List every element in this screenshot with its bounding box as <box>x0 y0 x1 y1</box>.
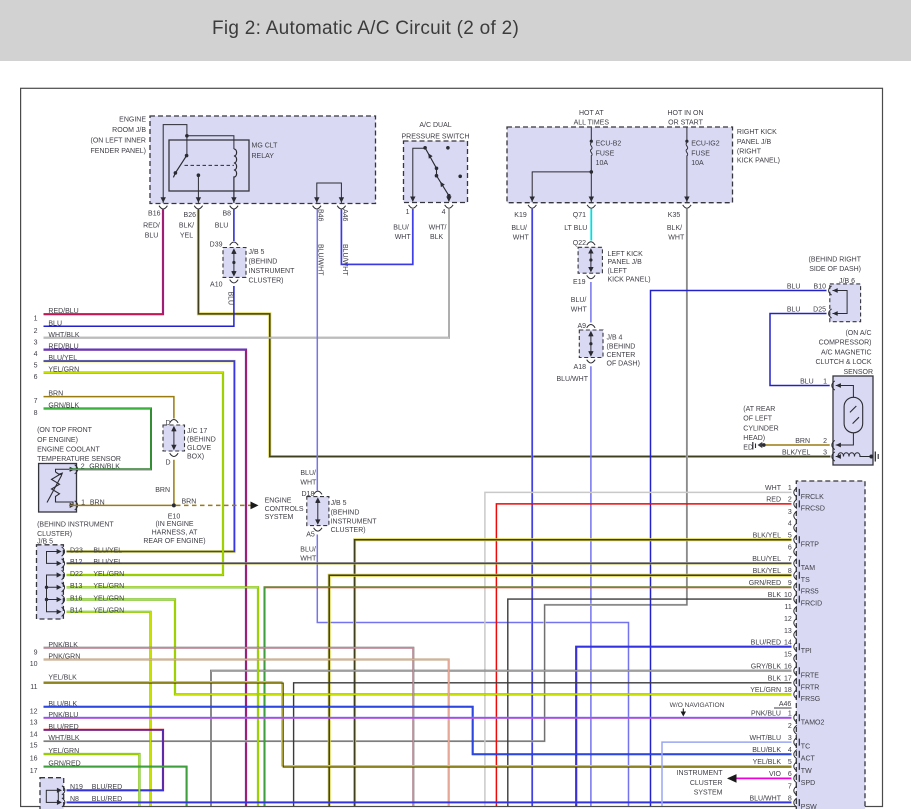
relay dashed linkage <box>185 164 234 166</box>
svg-text:FUSE: FUSE <box>596 151 615 158</box>
svg-text:BLK: BLK <box>430 234 444 241</box>
svg-text:1: 1 <box>406 209 410 216</box>
svg-text:A10: A10 <box>210 282 223 289</box>
svg-text:10: 10 <box>784 592 792 599</box>
svg-text:INSTRUMENT: INSTRUMENT <box>249 268 296 275</box>
wire VIO to amp pin A46-6 SPD <box>729 777 792 779</box>
svg-text:J/B 5: J/B 5 <box>331 500 347 507</box>
svg-text:D23: D23 <box>70 547 83 554</box>
svg-text:10: 10 <box>30 661 38 668</box>
wire YEL/GRN B13 to bottom <box>67 587 259 806</box>
J/B 4 box <box>579 330 603 358</box>
wire 2 BLU from J/B5 A10 <box>44 286 234 326</box>
svg-text:J/C 17: J/C 17 <box>187 428 207 435</box>
svg-text:2: 2 <box>34 328 38 335</box>
svg-text:(ON LEFT INNER: (ON LEFT INNER <box>91 138 147 145</box>
pressure switch internals <box>413 148 425 201</box>
svg-text:PANEL J/B: PANEL J/B <box>608 259 643 266</box>
svg-text:E10: E10 <box>168 514 181 521</box>
wire WHT/BLU to amp pin A46-3 TC <box>662 742 792 806</box>
right kick panel J/B fuse box <box>507 127 733 203</box>
svg-text:(BEHIND INSTRUMENT: (BEHIND INSTRUMENT <box>37 522 114 529</box>
wire YEL/GRN B16 to amp pin 18 FRSG <box>67 600 792 695</box>
svg-text:BRN: BRN <box>155 487 170 494</box>
wire BLK/YEL to amp pin 5 FRTP <box>355 540 792 806</box>
svg-text:TAMO2: TAMO2 <box>801 719 825 726</box>
svg-text:14: 14 <box>30 731 38 738</box>
tick bars for wired pins <box>798 489 800 806</box>
wire GRN/RED to amp pin 9 FRS5 <box>265 587 792 806</box>
svg-text:2: 2 <box>788 723 792 730</box>
svg-text:KICK PANEL): KICK PANEL) <box>737 158 780 165</box>
svg-text:GLOVE: GLOVE <box>187 445 211 452</box>
wire 5 BLU/YEL to J/B5 D23 <box>44 361 235 551</box>
svg-text:10A: 10A <box>691 160 704 167</box>
svg-text:D39: D39 <box>210 242 223 249</box>
svg-text:1: 1 <box>823 379 827 386</box>
svg-text:8: 8 <box>788 568 792 575</box>
svg-text:SENSOR: SENSOR <box>843 369 873 376</box>
ECT sensor pins 2 1 + thermistor <box>70 465 78 474</box>
svg-text:10A: 10A <box>596 160 609 167</box>
fuse ECU-IG2 <box>686 128 688 140</box>
svg-text:12: 12 <box>784 616 792 623</box>
svg-text:(BEHIND: (BEHIND <box>607 343 636 350</box>
svg-text:OF LEFT: OF LEFT <box>743 416 773 423</box>
svg-text:GRY/BLK: GRY/BLK <box>751 664 782 671</box>
svg-text:FRS5: FRS5 <box>801 589 819 596</box>
svg-text:ENGINE COOLANT: ENGINE COOLANT <box>37 446 100 453</box>
svg-text:YEL/GRN: YEL/GRN <box>93 583 124 590</box>
clutch sensor pins 1 2 3 <box>832 381 835 390</box>
svg-text:BLU: BLU <box>800 379 814 386</box>
left kick panel J/B box <box>578 247 602 273</box>
svg-text:YEL/GRN: YEL/GRN <box>93 595 124 602</box>
engine coolant temperature sensor box <box>39 464 77 513</box>
svg-text:B26: B26 <box>184 212 197 219</box>
svg-text:ROOM J/B: ROOM J/B <box>112 127 146 134</box>
svg-text:CLUSTER): CLUSTER) <box>331 527 366 534</box>
relay contact to B26 <box>197 175 199 203</box>
relay terminals B16 B26 B8 B46 A46 <box>159 197 167 209</box>
svg-text:BLU/YEL: BLU/YEL <box>48 355 77 362</box>
svg-text:LT BLU: LT BLU <box>564 225 587 232</box>
svg-text:BRN: BRN <box>795 438 810 445</box>
svg-text:CLUTCH & LOCK: CLUTCH & LOCK <box>815 359 871 366</box>
svg-text:ACT: ACT <box>801 756 816 763</box>
svg-text:BLU/BLK: BLU/BLK <box>752 747 781 754</box>
J/B4 A9/A18 <box>587 325 595 337</box>
J/B 5 (behind instrument cluster) small box under B8 <box>223 248 246 278</box>
svg-text:TAM: TAM <box>801 565 815 572</box>
svg-text:CYLINDER: CYLINDER <box>743 425 778 432</box>
svg-text:E19: E19 <box>573 279 586 286</box>
svg-text:16: 16 <box>30 756 38 763</box>
svg-text:N8: N8 <box>70 796 79 803</box>
svg-text:5: 5 <box>34 363 38 370</box>
wire B26 BLK/YEL to clutch sensor pin 3 <box>198 209 830 457</box>
svg-text:4: 4 <box>442 209 446 216</box>
svg-text:3: 3 <box>788 735 792 742</box>
svg-text:RED/: RED/ <box>143 223 160 230</box>
svg-text:N19: N19 <box>70 784 83 791</box>
svg-text:17: 17 <box>30 768 38 775</box>
wire 13 PNK/BLU to amp pin A46-1 TAMO2 <box>44 717 792 719</box>
svg-text:BLK/YEL: BLK/YEL <box>753 568 782 575</box>
svg-text:2: 2 <box>823 438 827 445</box>
wire BLK to amp pin 10 FRCID <box>508 599 792 806</box>
svg-text:MG CLT: MG CLT <box>252 143 279 150</box>
svg-text:K35: K35 <box>668 212 681 219</box>
bottom J/B pins N19 N8 + jumper <box>57 786 65 795</box>
svg-text:(AT REAR: (AT REAR <box>743 406 775 413</box>
svg-text:YEL/GRN: YEL/GRN <box>750 687 781 694</box>
svg-text:BLK: BLK <box>768 676 782 683</box>
svg-text:BLU: BLU <box>787 307 801 314</box>
svg-text:BLU/RED: BLU/RED <box>48 724 78 731</box>
svg-text:7: 7 <box>788 784 792 791</box>
svg-text:HEAD): HEAD) <box>743 435 765 442</box>
relay coil <box>234 149 237 203</box>
wire A5 BLU/WHT to bottom <box>317 535 628 807</box>
svg-text:FENDER PANEL): FENDER PANEL) <box>91 148 147 155</box>
svg-text:BLU/YEL: BLU/YEL <box>93 559 122 566</box>
svg-text:RIGHT KICK: RIGHT KICK <box>737 129 777 136</box>
svg-text:PSW: PSW <box>801 804 817 809</box>
svg-text:GRN/BLK: GRN/BLK <box>89 463 120 470</box>
J/C 17 box <box>163 425 185 451</box>
svg-text:(ON A/C: (ON A/C <box>845 330 871 337</box>
svg-text:YEL/GRN: YEL/GRN <box>48 367 79 374</box>
svg-text:CLUSTER): CLUSTER) <box>37 531 72 538</box>
svg-text:BLU/WHT: BLU/WHT <box>317 244 324 276</box>
svg-text:D25: D25 <box>813 307 826 314</box>
svg-text:BLU/RED: BLU/RED <box>92 784 122 791</box>
wire BLK/YEL to amp pin 8 TS <box>329 575 791 806</box>
svg-text:B16: B16 <box>148 211 161 218</box>
svg-text:VIO: VIO <box>769 771 782 778</box>
svg-text:3: 3 <box>34 339 38 346</box>
svg-text:15: 15 <box>784 652 792 659</box>
svg-text:BLU/WHT: BLU/WHT <box>557 376 589 383</box>
svg-text:13: 13 <box>30 719 38 726</box>
svg-text:(ON TOP FRONT: (ON TOP FRONT <box>37 427 93 434</box>
svg-text:BOX): BOX) <box>187 454 204 461</box>
J/C17 D/D <box>170 420 178 432</box>
svg-text:REAR OF ENGINE): REAR OF ENGINE) <box>143 538 205 545</box>
wire 8 GRN/BLK to ECT pin 2 <box>44 409 152 470</box>
svg-text:BLU/: BLU/ <box>300 546 316 553</box>
svg-text:B12: B12 <box>70 559 83 566</box>
svg-text:SYSTEM: SYSTEM <box>265 514 294 521</box>
svg-text:6: 6 <box>788 771 792 778</box>
svg-text:D22: D22 <box>70 571 83 578</box>
svg-text:6: 6 <box>34 374 38 381</box>
svg-text:ECU-IG2: ECU-IG2 <box>691 141 720 148</box>
svg-text:1: 1 <box>34 316 38 323</box>
svg-text:WHT: WHT <box>571 307 588 314</box>
svg-text:11: 11 <box>785 604 792 611</box>
left J/B 5 box (D23..B14) <box>37 545 64 619</box>
svg-text:RED: RED <box>766 497 781 504</box>
svg-text:A/C DUAL: A/C DUAL <box>419 122 451 129</box>
svg-text:(BEHIND RIGHT: (BEHIND RIGHT <box>809 257 862 264</box>
svg-text:HARNESS, AT: HARNESS, AT <box>152 529 198 536</box>
wire RED to amp pin 2 FRCSD <box>496 504 791 806</box>
svg-text:TC: TC <box>801 744 810 751</box>
svg-text:WHT: WHT <box>513 235 530 242</box>
svg-text:PRESSURE SWITCH: PRESSURE SWITCH <box>401 133 469 140</box>
left J/B5 pins + jumpers <box>57 547 65 556</box>
svg-text:INSTRUMENT: INSTRUMENT <box>677 770 724 777</box>
svg-text:1: 1 <box>81 499 85 506</box>
svg-text:5: 5 <box>788 759 792 766</box>
svg-text:A5: A5 <box>306 531 315 538</box>
BRN below J/C17 to E10 <box>173 460 175 506</box>
svg-text:YEL/GRN: YEL/GRN <box>93 571 124 578</box>
svg-text:D18: D18 <box>302 491 315 498</box>
svg-text:CLUSTER): CLUSTER) <box>249 278 284 285</box>
svg-text:PNK/BLU: PNK/BLU <box>751 711 781 718</box>
svg-text:11: 11 <box>30 684 37 691</box>
svg-text:BLK/YEL: BLK/YEL <box>753 533 782 540</box>
svg-text:17: 17 <box>784 676 792 683</box>
svg-text:J/B 5: J/B 5 <box>37 539 53 546</box>
svg-text:YEL/BLK: YEL/BLK <box>753 759 782 766</box>
svg-text:BLU/WHT: BLU/WHT <box>750 795 782 802</box>
svg-text:16: 16 <box>784 664 792 671</box>
svg-text:A46: A46 <box>341 209 348 222</box>
svg-text:D: D <box>165 420 170 427</box>
engine room J/B box <box>150 116 376 204</box>
svg-text:HOT IN ON: HOT IN ON <box>667 110 703 117</box>
BRN from ECT pin 1 to E10 <box>69 504 174 506</box>
svg-text:COMPRESSOR): COMPRESSOR) <box>819 340 872 347</box>
svg-text:(BEHIND: (BEHIND <box>187 437 216 444</box>
wire K19 BLU/WHT to bottom <box>531 209 533 806</box>
svg-text:WHT/BLK: WHT/BLK <box>48 735 79 742</box>
svg-text:OF DASH): OF DASH) <box>607 360 640 367</box>
svg-text:WHT: WHT <box>300 556 317 563</box>
svg-text:BLU/: BLU/ <box>300 470 316 477</box>
wire 11 YEL/BLK to amp pin A46-5 TW <box>44 682 792 766</box>
wire D25 BLU to clutch sensor pin 1 <box>770 314 830 386</box>
svg-text:YEL: YEL <box>180 233 193 240</box>
A/C amplifier box (right, cut off at bottom) <box>796 481 865 809</box>
svg-text:BLU/RED: BLU/RED <box>751 640 781 647</box>
svg-text:B10: B10 <box>814 284 827 291</box>
J/B5 D39/A10 <box>230 242 238 254</box>
svg-text:FRCSD: FRCSD <box>801 505 825 512</box>
svg-text:YEL/BLK: YEL/BLK <box>48 675 77 682</box>
wire 14 BLU/RED to N19 <box>44 730 164 791</box>
wire BLU/RED to amp pin 14 TPI <box>576 647 791 806</box>
A/C dual pressure switch box <box>404 141 468 203</box>
case ground bars at sensor <box>874 452 876 462</box>
svg-text:BLU: BLU <box>48 320 62 327</box>
svg-text:BLU/BLK: BLU/BLK <box>48 701 77 708</box>
wire 12 BLU/BLK to amp pin A46-4 ACT <box>44 707 792 754</box>
svg-text:BLU/: BLU/ <box>571 297 587 304</box>
svg-text:BRN: BRN <box>182 498 197 505</box>
wire 16 YEL/GRN to bottom <box>44 754 140 806</box>
svg-text:TS: TS <box>801 577 810 584</box>
amp connector pins A46 1-8 <box>794 713 797 722</box>
wire N8 BLU/RED to amp pin A46-8 <box>67 801 792 803</box>
svg-text:7: 7 <box>788 556 792 563</box>
svg-text:INSTRUMENT: INSTRUMENT <box>331 518 378 525</box>
svg-text:6: 6 <box>788 545 792 552</box>
svg-text:BLU: BLU <box>227 292 234 306</box>
svg-text:Q71: Q71 <box>573 212 586 219</box>
W/O NAVIGATION down arrow <box>682 709 684 713</box>
svg-text:BLU: BLU <box>145 233 159 240</box>
svg-text:B13: B13 <box>70 583 83 590</box>
svg-text:GRN/RED: GRN/RED <box>48 761 80 768</box>
svg-text:ENGINE: ENGINE <box>265 497 292 504</box>
svg-text:4: 4 <box>788 521 792 528</box>
svg-text:WHT: WHT <box>395 234 412 241</box>
svg-text:BLU/WHT: BLU/WHT <box>341 244 348 276</box>
svg-text:FUSE: FUSE <box>691 151 710 158</box>
ED ground symbol <box>752 442 754 450</box>
svg-text:14: 14 <box>784 640 792 647</box>
svg-text:YEL/GRN: YEL/GRN <box>48 748 79 755</box>
svg-text:B14: B14 <box>70 608 83 615</box>
fuse ECU-B2 <box>590 128 592 140</box>
svg-text:OF ENGINE): OF ENGINE) <box>37 437 78 444</box>
svg-text:ECU-B2: ECU-B2 <box>596 141 622 148</box>
svg-text:K19: K19 <box>514 212 527 219</box>
wire GRY/BLK to amp pin 16 FRTE <box>211 671 792 806</box>
svg-text:7: 7 <box>34 398 38 405</box>
svg-text:BLU/: BLU/ <box>511 225 527 232</box>
wire BLU/YEL B12 to amp pin 7 TAM <box>67 562 792 564</box>
svg-text:BLU/: BLU/ <box>393 225 409 232</box>
wire WHT to amp pin 1 FRCLK <box>485 492 792 806</box>
svg-text:BLK/: BLK/ <box>667 225 682 232</box>
svg-text:TPI: TPI <box>801 648 812 655</box>
svg-text:CLUSTER: CLUSTER <box>690 780 723 787</box>
svg-text:FRCID: FRCID <box>801 601 822 608</box>
svg-text:RED/BLU: RED/BLU <box>48 308 78 315</box>
wire BLK to amp pin 17 FRTR <box>294 683 792 806</box>
svg-text:9: 9 <box>34 649 38 656</box>
middle J/B 5 box (D18/A5) <box>307 497 329 526</box>
svg-text:TEMPERATURE SENSOR: TEMPERATURE SENSOR <box>37 456 121 463</box>
svg-text:B16: B16 <box>70 595 83 602</box>
svg-text:B46: B46 <box>317 209 324 222</box>
wire B8 BLU to J/B5 D39 <box>233 209 235 241</box>
svg-text:9: 9 <box>788 580 792 587</box>
svg-text:B8: B8 <box>222 211 231 218</box>
wire K35 BLK/WHT to wire 15 WHT/BLK <box>44 209 687 742</box>
svg-text:PNK/BLU: PNK/BLU <box>48 712 78 719</box>
svg-text:WHT: WHT <box>300 479 317 486</box>
svg-text:ALL TIMES: ALL TIMES <box>574 120 610 127</box>
A/C magnetic clutch and lock sensor box <box>833 376 873 465</box>
svg-text:OR START: OR START <box>668 120 703 127</box>
svg-text:13: 13 <box>784 628 792 635</box>
relay switch arm <box>186 136 188 156</box>
svg-text:BRN: BRN <box>48 391 63 398</box>
svg-text:(BEHIND: (BEHIND <box>249 259 278 266</box>
svg-text:WHT: WHT <box>765 485 782 492</box>
svg-text:5: 5 <box>788 533 792 540</box>
wire 3 WHT/BLK to pressure switch pin 4 <box>44 209 450 338</box>
svg-text:YEL/GRN: YEL/GRN <box>93 608 124 615</box>
relay internal wiring <box>163 125 187 203</box>
svg-text:Q22: Q22 <box>573 240 586 247</box>
svg-text:BLU/RED: BLU/RED <box>92 796 122 803</box>
svg-text:FRSG: FRSG <box>801 696 820 703</box>
wire Q71 LT BLU to Q22 <box>590 209 592 241</box>
fuse box terminals K19 Q71 K35 <box>528 197 536 209</box>
svg-text:A46: A46 <box>779 701 792 708</box>
svg-text:1: 1 <box>788 711 792 718</box>
wire A46 BLU/WHT to pressure switch pin 1 <box>341 209 412 264</box>
svg-text:PNK/BLK: PNK/BLK <box>48 642 78 649</box>
BRN dashed to engine controls system <box>176 504 251 506</box>
svg-text:FRTP: FRTP <box>801 541 819 548</box>
svg-text:FRCLK: FRCLK <box>801 494 824 501</box>
svg-text:GRN/BLK: GRN/BLK <box>48 403 79 410</box>
svg-text:CONTROLS: CONTROLS <box>265 506 304 513</box>
svg-text:WHT/BLK: WHT/BLK <box>48 332 79 339</box>
svg-text:J/B 4: J/B 4 <box>607 334 623 341</box>
svg-text:PNK/GRN: PNK/GRN <box>48 654 80 661</box>
svg-text:(LEFT: (LEFT <box>608 268 628 275</box>
wire 9 PNK/BLK to bottom <box>44 648 414 806</box>
B46-A46 jumper loop <box>317 183 342 203</box>
MG CLT relay box <box>169 140 249 191</box>
wire 1 RED/BLU to relay B16 <box>44 209 164 314</box>
svg-text:BRN: BRN <box>90 499 105 506</box>
svg-text:LEFT KICK: LEFT KICK <box>608 251 644 258</box>
wire BRN ED to clutch sensor pin 2 <box>766 444 830 446</box>
svg-text:ED: ED <box>743 445 753 452</box>
svg-text:4: 4 <box>788 747 792 754</box>
lock sensor coil on pin 3 <box>838 453 871 457</box>
svg-text:J/B 5: J/B 5 <box>249 249 265 256</box>
svg-text:D: D <box>165 460 170 467</box>
K19 branch inside fuse box <box>532 172 591 202</box>
svg-text:CENTER: CENTER <box>607 352 636 359</box>
svg-text:A18: A18 <box>574 364 587 371</box>
wire 10 PNK/GRN to bottom <box>44 660 449 807</box>
svg-text:3: 3 <box>788 509 792 516</box>
wire E19 BLU/WHT to J/B4 A9 <box>590 282 592 323</box>
svg-text:KICK PANEL): KICK PANEL) <box>608 277 651 284</box>
svg-text:2: 2 <box>788 497 792 504</box>
svg-text:BLU: BLU <box>215 223 229 230</box>
svg-text:BLU/YEL: BLU/YEL <box>93 547 122 554</box>
pressure switch terminals 1 4 <box>409 197 417 209</box>
svg-text:(BEHIND: (BEHIND <box>331 510 360 517</box>
svg-text:GRN/RED: GRN/RED <box>749 580 781 587</box>
svg-text:15: 15 <box>30 743 38 750</box>
svg-text:WHT/BLU: WHT/BLU <box>750 735 782 742</box>
svg-text:1: 1 <box>788 485 792 492</box>
svg-text:PANEL J/B: PANEL J/B <box>737 139 772 146</box>
svg-text:W/O NAVIGATION: W/O NAVIGATION <box>670 702 725 709</box>
wire YEL/GRN B14 to bottom <box>67 612 151 806</box>
svg-text:SPD: SPD <box>801 780 815 787</box>
svg-text:TW: TW <box>801 768 812 775</box>
svg-text:BLK/: BLK/ <box>179 223 194 230</box>
svg-text:FRTE: FRTE <box>801 672 819 679</box>
J/B 6 box <box>830 284 861 322</box>
